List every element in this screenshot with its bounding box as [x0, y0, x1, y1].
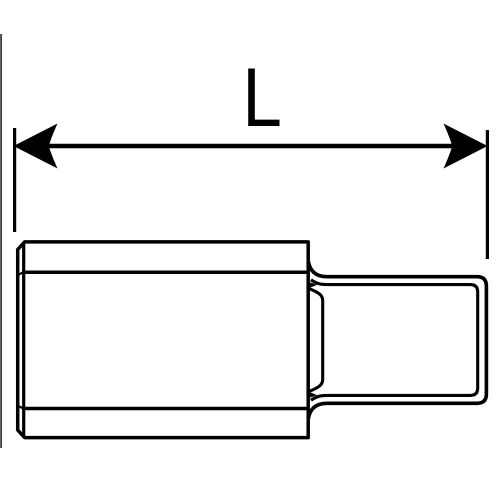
tang outer outline with fillets — [308, 261, 486, 420]
body outer outline (hex socket end, chamfered left corners) — [18, 242, 309, 438]
top flat chamfer tick — [18, 272, 24, 275]
left border artifact line — [0, 34, 2, 448]
body top hex flat line — [22, 270, 308, 274]
left arrowhead — [14, 124, 58, 169]
bottom flat chamfer tick — [18, 406, 24, 409]
body bottom hex flat line — [22, 407, 308, 411]
left extension line — [13, 128, 16, 232]
right arrowhead — [444, 124, 488, 169]
tang inner left edge — [309, 289, 323, 392]
dimension line — [44, 144, 456, 149]
body left chamfer inner vertical — [22, 244, 25, 437]
top junction wedge — [309, 282, 317, 288]
bottom junction wedge — [309, 392, 317, 398]
svg-text:L: L — [242, 52, 281, 145]
tang inner outline (top line, right cap, bottom line with tails merging into fillets) — [311, 280, 478, 400]
right extension line — [486, 130, 489, 259]
